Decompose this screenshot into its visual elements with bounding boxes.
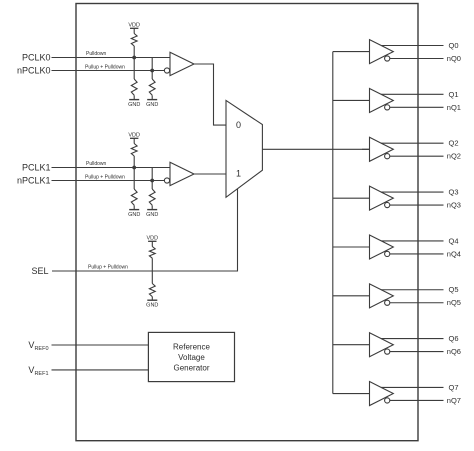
svg-text:Q2: Q2 bbox=[449, 139, 459, 148]
wire nPCLK1 input bbox=[52, 180, 165, 182]
wire Q1 output bbox=[381, 93, 444, 95]
output buffer 5 triangle bbox=[370, 284, 394, 308]
svg-text:nQ7: nQ7 bbox=[447, 396, 461, 405]
wire bus branch to output buffer 7 bbox=[333, 393, 370, 395]
resistor pullup (PCLK1 network) bbox=[131, 138, 137, 156]
svg-text:nQ3: nQ3 bbox=[447, 200, 461, 209]
svg-text:Generator: Generator bbox=[173, 363, 209, 372]
junction dot on nPCLK0 line bbox=[150, 69, 154, 73]
fanout bus vertical bbox=[332, 52, 334, 394]
svg-text:Pullup + Pulldown: Pullup + Pulldown bbox=[85, 64, 125, 70]
wire Q2 output bbox=[381, 142, 444, 144]
wire nQ0 output bbox=[390, 58, 444, 60]
wire nQ6 output bbox=[390, 351, 444, 353]
wire nPCLK0 input bbox=[52, 70, 165, 72]
wire Q3 output bbox=[381, 191, 444, 193]
wire nQ7 output bbox=[390, 399, 444, 401]
resistor pulldown (SEL network) bbox=[149, 284, 155, 297]
wire Q5 output bbox=[381, 289, 444, 291]
svg-text:Q7: Q7 bbox=[449, 383, 459, 392]
wire PCLK0 input bbox=[52, 57, 171, 59]
resistor pullup (PCLK0 network) bbox=[131, 28, 137, 46]
svg-text:Pullup + Pulldown: Pullup + Pulldown bbox=[88, 264, 128, 270]
inversion bubble (nPCLK1 input) bbox=[164, 178, 169, 183]
resistor pulldown 2 (nPCLK1 network) bbox=[149, 189, 155, 205]
svg-text:Pulldown: Pulldown bbox=[86, 51, 107, 57]
inversion bubble nQ0 bbox=[385, 56, 390, 61]
wire bus branch to output buffer 6 bbox=[333, 344, 370, 346]
wire nQ1 output bbox=[390, 106, 444, 108]
inversion bubble nQ1 bbox=[385, 105, 390, 110]
output buffer 3 triangle bbox=[370, 186, 394, 210]
VDD symbol (PCLK0 network) bbox=[128, 23, 140, 29]
svg-text:PCLK0: PCLK0 bbox=[22, 53, 51, 63]
wire Q0 output bbox=[381, 45, 444, 47]
multiplexer U1 bbox=[226, 100, 262, 197]
wire nQ4 output bbox=[390, 253, 444, 255]
svg-text:GND: GND bbox=[128, 102, 140, 108]
wire bus branch to output buffer 5 bbox=[333, 295, 370, 297]
svg-text:1: 1 bbox=[236, 169, 241, 179]
wire nQ5 output bbox=[390, 302, 444, 304]
resistor pulldown 1 (PCLK1 network) bbox=[131, 189, 137, 205]
wire bus branch to output buffer 2 bbox=[362, 148, 370, 150]
wire bus branch to output buffer 1 bbox=[333, 99, 370, 101]
device outline box bbox=[76, 4, 418, 441]
wire PCLK1 input bbox=[52, 167, 171, 169]
svg-text:nQ2: nQ2 bbox=[447, 152, 461, 161]
ground (left, PCLK1 network) bbox=[128, 205, 140, 218]
wire nQ3 output bbox=[390, 204, 444, 206]
wire Q7 output bbox=[381, 386, 444, 388]
wire VREF1 input bbox=[52, 369, 149, 371]
svg-text:GND: GND bbox=[128, 212, 140, 218]
wire Q6 output bbox=[381, 338, 444, 340]
output buffer 1 triangle bbox=[370, 88, 394, 112]
reference voltage generator box bbox=[148, 332, 234, 381]
output buffer 0 triangle bbox=[370, 40, 394, 64]
svg-text:PCLK1: PCLK1 bbox=[22, 163, 51, 173]
ground (left, PCLK0 network) bbox=[128, 95, 140, 108]
wire mux output bbox=[262, 148, 369, 150]
output buffer 6 triangle bbox=[370, 333, 394, 357]
wire SEL input bbox=[52, 189, 238, 271]
wire nQ2 output bbox=[390, 155, 444, 157]
wire second chain vertical (nPCLK1) bbox=[151, 168, 153, 190]
svg-text:Q1: Q1 bbox=[449, 90, 459, 99]
wire bus branch to output buffer 3 bbox=[333, 197, 370, 199]
svg-text:VDD: VDD bbox=[146, 236, 158, 242]
wire SEL chain vertical bbox=[151, 258, 153, 283]
svg-text:0: 0 bbox=[236, 120, 241, 130]
svg-text:Reference: Reference bbox=[173, 342, 210, 351]
svg-text:Q4: Q4 bbox=[449, 236, 459, 245]
inversion bubble nQ4 bbox=[385, 251, 390, 256]
VDD symbol (PCLK1 network) bbox=[128, 133, 140, 139]
inversion bubble (nPCLK0 input) bbox=[164, 68, 169, 73]
VDD symbol (SEL network) bbox=[146, 236, 158, 242]
output buffer 2 triangle bbox=[370, 137, 394, 161]
inversion bubble nQ5 bbox=[385, 300, 390, 305]
wire input buffer 0 to mux input 0 bbox=[194, 64, 226, 125]
svg-text:nQ1: nQ1 bbox=[447, 103, 461, 112]
ground (SEL network) bbox=[146, 297, 158, 309]
output buffer 4 triangle bbox=[370, 235, 394, 259]
svg-text:Pulldown: Pulldown bbox=[86, 161, 107, 167]
svg-text:Pullup + Pulldown: Pullup + Pulldown bbox=[85, 174, 125, 180]
wire VREF0 input bbox=[52, 344, 149, 346]
ground (right, nPCLK0 network) bbox=[146, 95, 158, 108]
input buffer 0 triangle bbox=[170, 52, 194, 75]
wire input buffer 1 to mux input 1 bbox=[194, 173, 226, 175]
svg-text:GND: GND bbox=[146, 212, 158, 218]
inversion bubble nQ6 bbox=[385, 349, 390, 354]
wire VDD chain vertical (PCLK0) bbox=[133, 46, 135, 79]
wire Q4 output bbox=[381, 240, 444, 242]
svg-text:VDD: VDD bbox=[128, 23, 140, 29]
resistor pulldown 1 (PCLK0 network) bbox=[131, 79, 137, 95]
wire bus branch to output buffer 0 bbox=[333, 51, 370, 53]
inversion bubble nQ2 bbox=[385, 154, 390, 159]
junction dot on nPCLK1 line bbox=[150, 179, 154, 183]
svg-text:nPCLK1: nPCLK1 bbox=[17, 176, 51, 186]
resistor pulldown 2 (nPCLK0 network) bbox=[149, 79, 155, 95]
svg-text:Q5: Q5 bbox=[449, 285, 459, 294]
svg-text:nPCLK0: nPCLK0 bbox=[17, 66, 51, 76]
svg-text:VDD: VDD bbox=[128, 133, 140, 139]
junction dot on PCLK1 line bbox=[132, 166, 136, 170]
wire VDD chain vertical (PCLK1) bbox=[133, 156, 135, 189]
svg-text:GND: GND bbox=[146, 302, 158, 308]
wire bus branch to output buffer 4 bbox=[333, 246, 370, 248]
svg-text:Q3: Q3 bbox=[449, 187, 459, 196]
wire second chain vertical (nPCLK0) bbox=[151, 58, 153, 80]
input buffer 1 triangle bbox=[170, 162, 194, 185]
svg-text:nQ4: nQ4 bbox=[447, 249, 461, 258]
junction dot on PCLK0 line bbox=[132, 56, 136, 60]
svg-text:nQ0: nQ0 bbox=[447, 54, 461, 63]
svg-text:GND: GND bbox=[146, 102, 158, 108]
svg-text:Voltage: Voltage bbox=[178, 353, 205, 362]
svg-text:Q6: Q6 bbox=[449, 334, 459, 343]
output buffer 7 triangle bbox=[370, 382, 394, 406]
resistor pullup (SEL network) bbox=[149, 241, 155, 258]
svg-text:nQ6: nQ6 bbox=[447, 347, 461, 356]
inversion bubble nQ3 bbox=[385, 202, 390, 207]
inversion bubble nQ7 bbox=[385, 398, 390, 403]
svg-text:nQ5: nQ5 bbox=[447, 298, 461, 307]
ground (right, nPCLK1 network) bbox=[146, 205, 158, 218]
svg-text:Q0: Q0 bbox=[449, 41, 459, 50]
svg-text:SEL: SEL bbox=[31, 266, 48, 276]
